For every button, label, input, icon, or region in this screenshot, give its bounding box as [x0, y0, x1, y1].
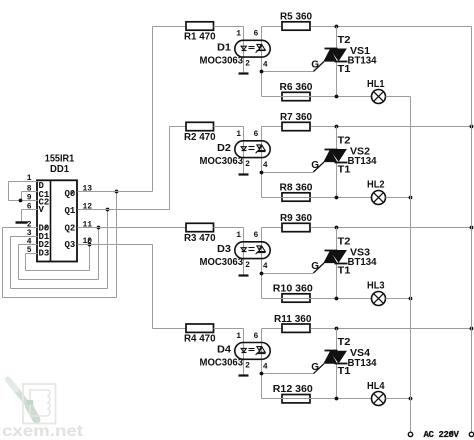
- wire pin 9 (C2): [9, 200, 38, 202]
- svg-text:6: 6: [253, 30, 258, 39]
- svg-text:R5 360: R5 360: [280, 12, 312, 23]
- wire gate row from pin 4: [262, 273, 314, 275]
- svg-text:1: 1: [236, 332, 241, 341]
- wire pin 5 (D3): [26, 253, 38, 255]
- node junction pin 4 / gate: [260, 70, 264, 74]
- svg-text:1: 1: [236, 231, 241, 240]
- ground (pin 2 of D3): [239, 274, 249, 276]
- svg-text:8: 8: [27, 185, 32, 194]
- svg-text:T1: T1: [338, 266, 351, 277]
- resistor R10: [273, 283, 313, 302]
- svg-text:R11 360: R11 360: [274, 314, 312, 325]
- svg-text:T2: T2: [338, 337, 351, 348]
- svg-text:MOC3063: MOC3063: [200, 257, 244, 268]
- svg-text:6: 6: [253, 332, 258, 341]
- svg-text:D2: D2: [217, 143, 231, 154]
- svg-text:G: G: [311, 60, 319, 71]
- IC DD1 155IR1 body: [37, 180, 77, 261]
- optocoupler D4 MOC3063: [235, 343, 270, 360]
- svg-text:2: 2: [245, 362, 250, 371]
- optocoupler D2 MOC3063: [235, 141, 270, 158]
- wire lamp to neutral bus: [386, 197, 411, 199]
- svg-text:R10 360: R10 360: [273, 283, 313, 294]
- node junction Q2 feedback: [97, 226, 101, 230]
- node junction triac T2 column: [335, 327, 339, 331]
- wire feedback loop Q1 to D1: [11, 210, 108, 289]
- wire pin6 down to ground: [21, 210, 23, 222]
- resistor R2: [184, 122, 216, 143]
- svg-text:HL2: HL2: [367, 180, 385, 191]
- resistor R11: [274, 314, 312, 333]
- wire channel 1 input row: [153, 26, 187, 28]
- slashed zero in 220V: [449, 431, 453, 437]
- svg-text:T1: T1: [338, 64, 351, 75]
- node junction triac T2 column: [335, 25, 339, 29]
- node junction C1/C2: [19, 199, 23, 203]
- wire pin 8 (C1): [22, 191, 38, 193]
- node junction T1 / bottom row: [335, 95, 339, 99]
- wire R1 to optocoupler pin 1: [214, 27, 244, 73]
- watermark logo green pad: [27, 400, 33, 405]
- watermark logo chip body with pin bumps: [30, 390, 50, 416]
- wire R7 to AC bus: [311, 126, 472, 128]
- wire pin6 row to R5: [262, 26, 283, 28]
- optocoupler D3 MOC3063: [235, 242, 270, 259]
- wire Q0 (pin13) to channel 1: [78, 27, 153, 192]
- wire R3 to optocoupler pin 1: [214, 228, 244, 275]
- svg-text:G: G: [311, 261, 319, 272]
- wire joining pin1 to pin9 row: [8, 182, 10, 201]
- resistor R4: [184, 324, 216, 345]
- wire triac T1 lead: [336, 364, 338, 399]
- ground (pin 2 of D2): [239, 173, 249, 175]
- wire optocoupler pin 6 / pin 4 column: [261, 27, 263, 97]
- svg-text:BT134: BT134: [348, 56, 377, 67]
- resistor R3: [184, 223, 216, 244]
- svg-text:DD1: DD1: [50, 164, 69, 175]
- svg-text:R6 360: R6 360: [280, 82, 313, 93]
- watermark logo chip outer outline: [23, 384, 56, 424]
- lamp HL4: [372, 392, 386, 406]
- svg-text:MOC3063: MOC3063: [200, 358, 244, 369]
- wire pin 6 (V): [22, 209, 38, 211]
- wire R9 to AC bus: [311, 227, 472, 229]
- svg-text:BT134: BT134: [348, 156, 377, 167]
- svg-text:MOC3063: MOC3063: [200, 56, 244, 67]
- svg-text:T1: T1: [338, 165, 351, 176]
- triac VS2 BT134: [313, 149, 347, 172]
- svg-text:4: 4: [263, 262, 268, 271]
- wire pin 3 (D1): [11, 236, 38, 238]
- svg-text:D3: D3: [39, 249, 50, 259]
- wire lamp to neutral bus: [386, 96, 411, 98]
- svg-text:T1: T1: [338, 366, 351, 377]
- svg-text:6: 6: [253, 130, 258, 139]
- svg-text:BT134: BT134: [348, 358, 377, 369]
- resistor R8: [280, 182, 313, 201]
- svg-text:R2 470: R2 470: [184, 132, 216, 143]
- wire bottom row to lamp HL1: [262, 96, 372, 98]
- wire R2 to optocoupler pin 1: [214, 127, 244, 174]
- lamp HL3: [372, 292, 386, 306]
- ground (pin 2 of D1): [239, 72, 249, 74]
- svg-text:R12 360: R12 360: [273, 384, 313, 395]
- svg-text:cxem.net: cxem.net: [2, 423, 83, 440]
- resistor R5: [280, 12, 312, 31]
- watermark logo screwdriver handle: [29, 406, 37, 420]
- svg-text:R1 470: R1 470: [184, 31, 216, 42]
- svg-text:2: 2: [245, 160, 250, 169]
- optocoupler D1 MOC3063: [235, 40, 270, 57]
- wire pin 4 (D2): [19, 244, 38, 246]
- svg-text:HL4: HL4: [367, 381, 385, 392]
- node junction on AC bus: [470, 226, 474, 230]
- slashed zero marks: [45, 191, 91, 243]
- wire bottom row to lamp HL2: [262, 197, 372, 199]
- wire gate row from pin 4: [262, 172, 314, 174]
- wire AC bus right (phase): [471, 27, 473, 433]
- triac VS1 BT134: [313, 49, 347, 72]
- svg-text:R9 360: R9 360: [280, 213, 312, 224]
- node junction T1 / bottom row: [335, 196, 339, 200]
- svg-text:Q1: Q1: [65, 206, 76, 216]
- svg-text:R7 360: R7 360: [280, 112, 312, 123]
- node junction pin 4 / gate: [260, 272, 264, 276]
- wire gate row from pin 4: [262, 71, 314, 73]
- node junction Q3 feedback: [88, 243, 92, 247]
- svg-text:V: V: [39, 205, 45, 215]
- wire channel 2 input row: [170, 126, 187, 128]
- wire optocoupler pin 6 / pin 4 column: [261, 228, 263, 299]
- resistor R1: [184, 22, 216, 43]
- svg-text:155IR1: 155IR1: [45, 154, 75, 165]
- svg-text:6: 6: [27, 203, 32, 212]
- wire feedback loop Q2 to D2: [19, 228, 99, 280]
- svg-text:11: 11: [83, 221, 93, 230]
- node junction on AC bus: [470, 125, 474, 129]
- resistor R9: [280, 213, 312, 232]
- resistor R6: [280, 82, 313, 101]
- wire triac T1 lead: [336, 264, 338, 299]
- svg-text:1: 1: [236, 130, 241, 139]
- svg-text:G: G: [311, 362, 319, 373]
- triac VS4 BT134: [313, 351, 347, 374]
- svg-text:T2: T2: [338, 35, 351, 46]
- svg-text:R3 470: R3 470: [184, 233, 216, 244]
- watermark cxem.net logo screwdriver blade: [8, 380, 29, 407]
- triac VS3 BT134: [313, 250, 347, 273]
- node junction T1 / bottom row: [335, 397, 339, 401]
- svg-text:HL3: HL3: [367, 281, 385, 292]
- node junction on neutral bus: [409, 297, 413, 301]
- node junction T1 / bottom row: [335, 297, 339, 301]
- wire triac T2 lead: [336, 228, 338, 251]
- node junction triac T2 column: [335, 125, 339, 129]
- lamp HL2: [372, 191, 386, 205]
- terminal AC right: [469, 432, 473, 436]
- node junction on AC bus: [470, 327, 474, 331]
- wire pin6 row to R7: [262, 126, 283, 128]
- wire R4 to optocoupler pin 1: [214, 329, 244, 375]
- svg-text:T2: T2: [338, 236, 351, 247]
- wire Q2 (pin11) to channel 3: [78, 227, 187, 229]
- svg-text:1: 1: [236, 30, 241, 39]
- svg-text:12: 12: [83, 203, 93, 212]
- wire R5 to AC bus: [311, 26, 472, 28]
- node junction Q1 feedback: [106, 208, 110, 212]
- wire pin 2 (D0): [3, 227, 38, 229]
- svg-text:HL1: HL1: [367, 79, 385, 90]
- svg-text:Q2: Q2: [65, 224, 76, 234]
- wire pin 1 (D input): [9, 181, 38, 183]
- svg-text:R8 360: R8 360: [280, 182, 313, 193]
- svg-text:G: G: [311, 160, 319, 171]
- node junction on neutral bus: [409, 196, 413, 200]
- svg-text:Q0: Q0: [65, 189, 76, 199]
- wire triac T2 lead: [336, 329, 338, 351]
- node junction Q0 feedback: [115, 190, 119, 194]
- svg-text:D1: D1: [217, 43, 231, 54]
- svg-text:13: 13: [83, 185, 93, 194]
- resistor R7: [280, 112, 312, 131]
- svg-text:T2: T2: [338, 135, 351, 146]
- svg-text:BT134: BT134: [348, 257, 377, 268]
- wire lamp to neutral bus: [386, 398, 411, 400]
- lamp HL1: [372, 90, 386, 104]
- svg-text:4: 4: [263, 363, 268, 372]
- svg-text:Q3: Q3: [65, 240, 76, 250]
- wire gate row from pin 4: [262, 373, 314, 375]
- wire triac T2 lead: [336, 127, 338, 150]
- wire AC neutral bus: [410, 97, 412, 433]
- wire feedback loop Q0 to D0: [3, 192, 117, 298]
- wire Q1 (pin12) to channel 2: [78, 127, 170, 210]
- node junction pin 4 / gate: [260, 171, 264, 175]
- svg-text:6: 6: [253, 231, 258, 240]
- wire triac T2 lead: [336, 27, 338, 49]
- svg-text:4: 4: [263, 61, 268, 70]
- wire R11 to AC bus: [311, 328, 472, 330]
- resistor R12: [273, 384, 313, 403]
- svg-text:MOC3063: MOC3063: [200, 156, 244, 167]
- wire triac T1 lead: [336, 163, 338, 198]
- ground (pin 6 of DD1): [16, 221, 28, 223]
- svg-text:AC 220V: AC 220V: [424, 430, 460, 440]
- wire bottom row to lamp HL3: [262, 298, 372, 300]
- svg-text:2: 2: [245, 60, 250, 69]
- svg-text:9: 9: [27, 194, 32, 203]
- node junction triac T2 column: [335, 226, 339, 230]
- wire feedback loop Q3 to D3: [26, 245, 90, 271]
- svg-text:2: 2: [245, 261, 250, 270]
- wire joining pin8 to pin9 row: [21, 192, 23, 201]
- terminal AC left: [408, 432, 412, 436]
- wire optocoupler pin 6 / pin 4 column: [261, 127, 263, 198]
- wire pin6 row to R9: [262, 227, 283, 229]
- wire triac T1 lead: [336, 62, 338, 97]
- ground (pin 2 of D4): [239, 374, 249, 376]
- svg-text:D3: D3: [217, 244, 231, 255]
- wire lamp to neutral bus: [386, 298, 411, 300]
- svg-text:R4 470: R4 470: [184, 334, 216, 345]
- wire bottom row to lamp HL4: [262, 398, 372, 400]
- node junction on neutral bus: [409, 397, 413, 401]
- wire optocoupler pin 6 / pin 4 column: [261, 329, 263, 399]
- wire pin6 row to R11: [262, 328, 283, 330]
- svg-text:4: 4: [263, 161, 268, 170]
- svg-text:D4: D4: [217, 345, 231, 356]
- node junction pin 4 / gate: [260, 372, 264, 376]
- wire Q3 (pin10) to channel 4: [78, 245, 187, 329]
